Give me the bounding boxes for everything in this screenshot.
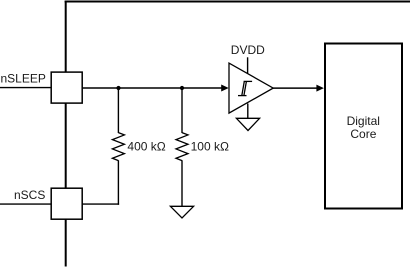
block Digital Core: [325, 44, 402, 209]
pin box nSLEEP: [51, 72, 82, 103]
hysteresis glyph right slant: [244, 81, 247, 95]
resistor R2 100k zigzag: [176, 133, 188, 161]
resistor R1 400k zigzag: [112, 133, 124, 161]
wire nSCS box to R1 bottom: [82, 203, 119, 205]
svg-text:nSLEEP: nSLEEP: [1, 71, 46, 85]
wire buffer to ground: [247, 104, 249, 119]
pin box nSCS: [51, 188, 82, 219]
hysteresis glyph left slant: [242, 81, 245, 95]
node junction dot A: [116, 86, 120, 90]
hysteresis glyph bottom bar: [238, 95, 247, 97]
wire left vertical trunk: [65, 1, 67, 267]
wire nSCS pin stub: [0, 203, 52, 205]
wire nSLEEP pin stub: [0, 87, 52, 89]
svg-text:400 kΩ: 400 kΩ: [127, 139, 165, 153]
input arrowhead into buffer: [221, 85, 229, 92]
output arrowhead into digital core: [316, 85, 324, 92]
ground GND1: [170, 206, 193, 218]
hysteresis glyph top bar: [244, 80, 253, 82]
wire R1 down to nSCS net: [117, 160, 119, 205]
wire node B down to R2: [181, 88, 183, 133]
wire node A down to R1: [117, 88, 119, 133]
svg-text:100 kΩ: 100 kΩ: [191, 139, 229, 153]
wire buffer output: [273, 87, 318, 89]
wire R2 down to ground: [181, 160, 183, 206]
ground GND2: [236, 118, 259, 130]
svg-text:nSCS: nSCS: [14, 188, 45, 202]
wire DVDD supply stub: [247, 57, 249, 73]
wire nSLEEP to buffer input: [82, 87, 222, 89]
svg-text:DVDD: DVDD: [231, 43, 265, 57]
svg-text:Digital: Digital: [347, 114, 380, 128]
wire top rail: [65, 1, 410, 3]
node junction dot B: [180, 86, 184, 90]
svg-text:Core: Core: [350, 127, 376, 141]
op-amp U1 schmitt buffer triangle: [229, 63, 273, 113]
